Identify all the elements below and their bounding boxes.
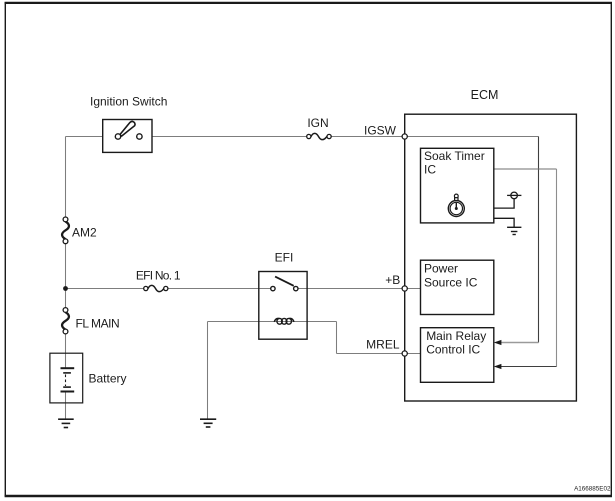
stopwatch icon — [448, 194, 464, 216]
fuse EFI No.1 — [144, 285, 168, 291]
wire: coil ground drop — [207, 322, 209, 420]
Power Source IC box — [421, 260, 494, 314]
node MREL at ECM edge — [402, 351, 407, 356]
relay contact left — [271, 286, 275, 290]
terminal circle — [511, 192, 518, 199]
ECM box — [405, 114, 577, 401]
wire: ECM vertical drop 1 (IGSW to Main Relay Control IC) — [538, 137, 540, 343]
soak timer pin wire lower (to ground) — [494, 218, 514, 227]
svg-text:Main Relay: Main Relay — [426, 329, 486, 343]
svg-text:EFI No. 1: EFI No. 1 — [136, 269, 181, 283]
wire: ECM vertical drop 2 — [556, 169, 558, 367]
terminal crossbar — [507, 194, 521, 196]
fuse FL MAIN (vertical) — [62, 308, 69, 334]
EFI relay box — [259, 272, 307, 340]
ignition switch left contact — [115, 134, 120, 139]
ground inside ECM — [507, 227, 521, 234]
relay coil — [274, 318, 294, 324]
junction node — [63, 286, 68, 291]
svg-text:IC: IC — [424, 163, 436, 177]
label Main Relay Control IC — [426, 329, 486, 357]
svg-text:IGN: IGN — [307, 116, 328, 130]
svg-text:EFI: EFI — [275, 251, 294, 265]
wire: relay coil horizontal — [208, 321, 337, 323]
soak timer pin wire upper (to terminal) — [494, 199, 514, 208]
wire: horizontal from battery feed to ignition switch contact — [66, 136, 119, 138]
wire: EFI No.1 fuse to relay contact — [166, 288, 273, 290]
label Soak Timer IC — [424, 149, 485, 177]
wire: left vertical battery feed upper — [65, 137, 67, 220]
node IGSW at ECM edge — [402, 134, 407, 139]
node +B at ECM edge — [402, 286, 407, 291]
ground below relay coil — [200, 419, 216, 427]
ground below battery — [58, 419, 74, 427]
Main Relay Control IC box — [421, 328, 494, 383]
svg-text:Ignition Switch: Ignition Switch — [90, 95, 167, 109]
arrowhead 1 — [494, 340, 502, 345]
ignition switch lever — [120, 121, 135, 136]
svg-text:AM2: AM2 — [72, 226, 97, 240]
fuse IGN — [307, 133, 332, 139]
svg-text:ECM: ECM — [471, 88, 499, 102]
svg-text:Control IC: Control IC — [426, 343, 480, 357]
wire: arrow feed 2 horizontal — [500, 366, 557, 368]
svg-text:MREL: MREL — [366, 338, 400, 352]
svg-text:Power: Power — [424, 262, 458, 276]
svg-text:Source IC: Source IC — [424, 275, 478, 289]
battery box — [50, 353, 83, 403]
wire: IGN fuse to ECM IGSW node and vertical drop — [329, 136, 538, 138]
wire: battery bottom lead to ground — [65, 392, 67, 420]
svg-text:+B: +B — [385, 273, 400, 287]
wire: MREL drop — [336, 322, 338, 354]
wire: relay contact to ECM +B and Power Source IC — [296, 288, 421, 290]
wire: ignition switch to IGN fuse — [139, 136, 308, 138]
wire: junction to EFI No.1 fuse — [66, 288, 146, 290]
svg-text:IGSW: IGSW — [364, 124, 397, 138]
fuse AM2 (vertical) — [62, 217, 69, 244]
wire: MREL horizontal to ECM — [337, 353, 421, 355]
svg-text:Battery: Battery — [89, 372, 127, 386]
battery cell plates — [61, 368, 75, 391]
wire: Soak Timer IC output to vertical drop 2 — [494, 168, 557, 170]
relay switch blade — [275, 277, 294, 286]
svg-text:A166885E02: A166885E02 — [574, 485, 611, 492]
Soak Timer IC box — [421, 148, 494, 223]
relay contact right — [294, 286, 298, 290]
ignition switch box — [103, 120, 152, 153]
svg-text:Soak Timer: Soak Timer — [424, 149, 485, 163]
label Power Source IC — [424, 262, 478, 290]
ignition switch right contact — [137, 134, 142, 139]
svg-text:FL MAIN: FL MAIN — [76, 316, 120, 330]
wire: arrow feed 1 horizontal — [500, 342, 539, 344]
wire: left vertical between AM2 and FL MAIN — [65, 241, 67, 310]
wire: left vertical FL MAIN to battery plate — [65, 332, 67, 369]
arrowhead 2 — [494, 364, 502, 369]
